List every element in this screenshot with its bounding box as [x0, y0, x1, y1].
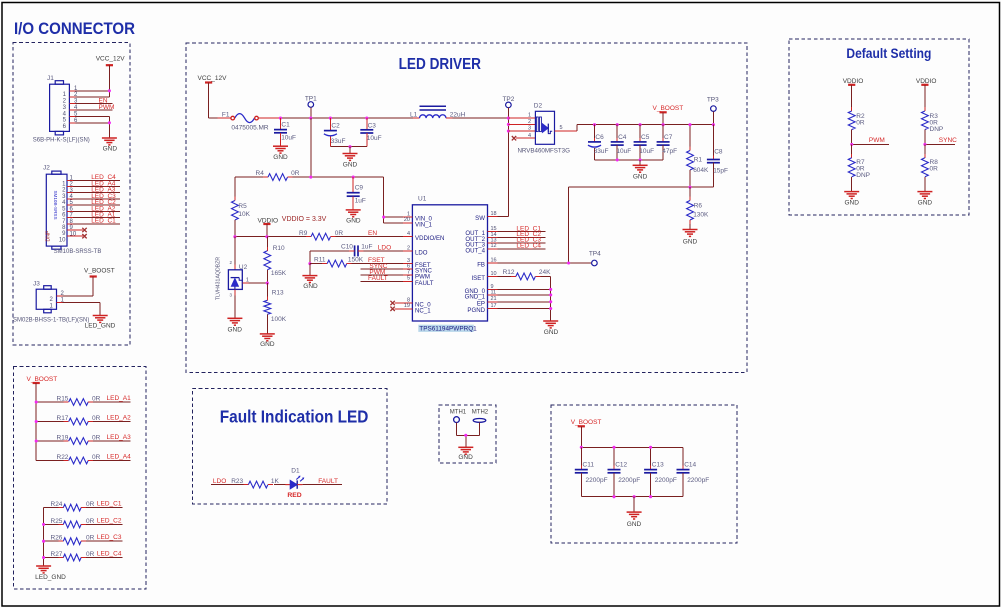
- svg-text:PWM: PWM: [99, 104, 115, 111]
- junction C10 R11: [308, 262, 311, 265]
- svg-text:C2: C2: [331, 122, 340, 129]
- capacitor C13 2200pF: [644, 447, 677, 496]
- svg-text:D1: D1: [291, 467, 300, 474]
- svg-text:4: 4: [407, 231, 410, 237]
- capacitor C14 2200pF: [677, 447, 710, 496]
- connector J2: [43, 165, 101, 255]
- svg-text:GND: GND: [544, 329, 559, 336]
- svg-text:GND: GND: [227, 327, 242, 334]
- svg-text:C6: C6: [595, 134, 604, 141]
- junction C1 rail: [279, 117, 282, 120]
- svg-text:LDO: LDO: [378, 245, 391, 252]
- wire LED_GND bus: [43, 508, 45, 566]
- resistor R17 0R net LED_A2: [36, 415, 131, 425]
- svg-text:0R: 0R: [335, 230, 344, 237]
- wire D2 pin1: [508, 113, 535, 119]
- junction EP: [549, 300, 552, 303]
- svg-text:100K: 100K: [271, 316, 287, 323]
- wire GND_0 to bus: [498, 288, 551, 290]
- svg-text:R22: R22: [57, 454, 69, 461]
- wire feedback node: [569, 187, 714, 263]
- wire J2 pin6 net LED_A2: [73, 205, 120, 212]
- wire U2 anode to ground: [234, 289, 236, 318]
- resistor R22 0R net LED_A4: [36, 454, 131, 464]
- ground at capacitor bank: [627, 497, 642, 528]
- op-amp U1 TPS61194PWPRQ1 body: [412, 196, 487, 333]
- test point TP2: [502, 96, 514, 118]
- junction GND_0: [549, 288, 552, 291]
- ground at C9: [346, 210, 361, 225]
- output capacitor section dashed box: [551, 405, 737, 543]
- no-connect D2 pin4: [512, 133, 536, 141]
- junction feedback R1: [688, 186, 691, 189]
- junction PWM divider: [850, 143, 853, 146]
- svg-text:TLVH431AQDBZR: TLVH431AQDBZR: [216, 257, 222, 300]
- svg-text:19: 19: [404, 303, 410, 309]
- wire D2 pin2: [508, 119, 535, 125]
- capacitor C7 47pF: [657, 125, 678, 160]
- svg-text:U2: U2: [239, 264, 248, 271]
- svg-text:2200pF: 2200pF: [618, 477, 640, 484]
- svg-text:VIN_1: VIN_1: [415, 221, 433, 228]
- U1 pin 5 FAULT: [403, 276, 434, 287]
- svg-text:130K: 130K: [693, 212, 709, 219]
- resistor R15 0R net LED_A1: [36, 395, 131, 405]
- resistor R24 0R net LED_C1: [44, 501, 123, 511]
- svg-text:12: 12: [491, 243, 497, 249]
- junction V_BOOST R17: [35, 420, 38, 423]
- U1 pin 14 OUT_2: [465, 232, 497, 243]
- no-connect J2 pin10: [67, 234, 87, 238]
- svg-text:SYNC: SYNC: [939, 137, 957, 144]
- LED D1 RED: [285, 467, 304, 499]
- power symbol VCC_12V main: [198, 75, 228, 118]
- svg-text:GND: GND: [303, 283, 318, 290]
- svg-text:TP4: TP4: [589, 250, 601, 257]
- svg-text:0475005.MR: 0475005.MR: [231, 125, 269, 132]
- wire net LDO to R23: [211, 478, 244, 485]
- svg-text:11: 11: [491, 289, 497, 295]
- svg-text:0R: 0R: [930, 166, 939, 173]
- junction top rail C11: [580, 446, 583, 449]
- svg-text:DNP: DNP: [45, 230, 51, 241]
- resistor R8 0R: [922, 144, 939, 191]
- resistor R2 0R: [848, 107, 865, 144]
- wire J2 pin1 net LED_C4: [73, 174, 120, 181]
- svg-text:GND: GND: [273, 154, 288, 161]
- svg-text:C5: C5: [641, 134, 650, 141]
- junction bottom rail C13: [649, 495, 652, 498]
- junction EN R5: [233, 235, 236, 238]
- svg-text:V_BOOST: V_BOOST: [653, 105, 684, 112]
- wire D2 pin5 to V_BOOST rail: [555, 125, 714, 132]
- junction SW node pin2: [507, 123, 510, 126]
- capacitor C1 10uF: [274, 118, 296, 146]
- ground at J1: [102, 138, 117, 153]
- wire D1 net FAULT: [302, 478, 341, 485]
- capacitor C10 1uF net LDO: [310, 244, 403, 257]
- svg-text:33uF: 33uF: [594, 148, 609, 155]
- resistor R23 1K: [231, 478, 279, 488]
- connector J3: [13, 281, 89, 324]
- capacitor C11 2200pF: [575, 447, 608, 496]
- wire D2 pin3: [508, 126, 535, 132]
- capacitor C9 1uF: [347, 177, 366, 210]
- resistor R11 150K net FSET: [310, 257, 403, 267]
- svg-text:GND: GND: [627, 521, 642, 528]
- ground at R11 C10: [302, 276, 318, 291]
- svg-text:LED_GND: LED_GND: [35, 574, 66, 581]
- junction C7 V_BOOST rail: [662, 123, 665, 126]
- wire OUT_2 net LED_C2: [498, 231, 546, 238]
- svg-text:LED_C1: LED_C1: [97, 501, 122, 508]
- svg-text:C3: C3: [368, 122, 377, 129]
- mounting holes dashed box: [439, 405, 496, 463]
- junction J1 GND: [108, 121, 111, 124]
- power symbol V_BOOST main: [653, 105, 684, 125]
- svg-text:1: 1: [246, 277, 249, 283]
- junction C6 V_BOOST rail: [593, 123, 596, 126]
- junction LED_GND R27: [42, 556, 45, 559]
- svg-text:17: 17: [491, 303, 497, 309]
- svg-text:C1: C1: [281, 122, 290, 129]
- wire switch node SW: [498, 118, 509, 217]
- resistor R6 130K: [687, 187, 709, 229]
- svg-text:R6: R6: [694, 203, 703, 210]
- junction SW node rail: [507, 117, 510, 120]
- capacitor C12 2200pF: [608, 447, 641, 496]
- svg-text:GND: GND: [844, 200, 859, 207]
- junction V_BOOST R15: [35, 400, 38, 403]
- test point TP3: [707, 96, 719, 124]
- ground at mounting holes: [458, 447, 473, 461]
- U1 pin 1 VIN_0: [403, 211, 433, 222]
- junction C4 V_BOOST rail: [616, 123, 619, 126]
- power symbol V_BOOST capacitor bank: [571, 419, 602, 447]
- svg-text:R17: R17: [57, 415, 69, 422]
- junction FB node: [567, 261, 570, 264]
- wire J2 pin8 net LED_C1: [73, 218, 120, 225]
- svg-text:LED_C1: LED_C1: [91, 218, 116, 225]
- svg-text:GND: GND: [683, 239, 698, 246]
- wire GND_1 to bus: [498, 294, 551, 296]
- power symbol VDDIO PWM divider: [843, 78, 864, 111]
- svg-text:10: 10: [491, 271, 497, 277]
- svg-text:3: 3: [528, 126, 531, 132]
- svg-text:V_BOOST: V_BOOST: [571, 419, 602, 426]
- junction EN VDDIO: [265, 235, 268, 238]
- junction C2 rail: [329, 117, 332, 120]
- wire net SYNC: [925, 137, 957, 144]
- svg-text:OUT_4: OUT_4: [465, 247, 485, 254]
- svg-text:GND: GND: [458, 454, 473, 461]
- svg-text:PWM: PWM: [869, 137, 885, 144]
- wire J1 pin3 net EN: [76, 97, 113, 104]
- svg-text:0R: 0R: [92, 415, 101, 422]
- svg-text:22uH: 22uH: [450, 111, 466, 118]
- ground at R7: [844, 192, 859, 207]
- power symbol V_BOOST anode resistors: [27, 376, 58, 461]
- svg-text:NC_1: NC_1: [415, 307, 431, 314]
- svg-text:C13: C13: [652, 461, 664, 468]
- svg-text:J3: J3: [33, 281, 40, 288]
- wire R11 ground stem: [309, 264, 311, 276]
- junction SW node pin3: [507, 129, 510, 132]
- svg-text:C12: C12: [615, 461, 627, 468]
- LED resistor section dashed box: [14, 367, 147, 590]
- svg-text:LDO: LDO: [415, 249, 428, 256]
- svg-text:24K: 24K: [539, 269, 551, 276]
- wire mounting holes to ground: [457, 435, 480, 447]
- wire J3 pin1 to LED_GND: [63, 303, 101, 316]
- wire J2 pin2 net LED_A4: [73, 180, 120, 187]
- test point TP4: [589, 250, 601, 265]
- svg-text:LED_C4: LED_C4: [516, 242, 541, 249]
- wire OUT_1 net LED_C1: [498, 225, 546, 232]
- U1 pin 20 VIN_1: [403, 217, 433, 228]
- ground at R8: [917, 192, 932, 207]
- svg-text:C4: C4: [618, 134, 627, 141]
- junction GND_1: [549, 293, 552, 296]
- wire R23 to D1: [274, 484, 286, 486]
- junction PGND: [549, 307, 552, 310]
- junction R10 R13 U2: [266, 282, 269, 285]
- junction LED_GND R26: [42, 540, 45, 543]
- wire net PWM to U1: [361, 269, 403, 276]
- svg-text:I/O CONNECTOR: I/O CONNECTOR: [14, 19, 135, 38]
- wire output cap ground bus: [595, 159, 664, 161]
- svg-text:PGND: PGND: [467, 307, 485, 314]
- svg-text:LED_GND: LED_GND: [85, 323, 116, 330]
- section title Default Setting: [846, 46, 931, 61]
- wire FB to TP4: [498, 262, 592, 264]
- wire U2 ref pin 1: [242, 277, 267, 283]
- svg-text:R15: R15: [57, 396, 69, 403]
- svg-text:0R: 0R: [856, 119, 865, 126]
- fault indication section dashed box: [193, 389, 388, 505]
- ground at R6: [683, 230, 698, 246]
- resistor R25 0R net LED_C2: [44, 517, 123, 527]
- resistor R27 0R net LED_C4: [44, 551, 123, 561]
- wire VCC_12V to fuse F1: [209, 117, 231, 119]
- svg-text:GND: GND: [103, 146, 118, 153]
- svg-text:16: 16: [491, 257, 497, 263]
- mounting hole MTH1: [450, 409, 467, 435]
- junction TP1 rail: [309, 117, 312, 120]
- wire C10 to ground: [309, 251, 311, 264]
- resistor R4 0R: [235, 170, 384, 180]
- junction mounting hole ground: [464, 434, 467, 437]
- svg-text:15pF: 15pF: [713, 168, 728, 175]
- default setting section dashed box: [789, 39, 969, 215]
- junction TP3 rail: [712, 123, 715, 126]
- svg-text:5: 5: [407, 276, 410, 282]
- U1 pin 6 SYNC: [403, 263, 433, 274]
- junction bottom rail C12: [612, 495, 615, 498]
- svg-text:C14: C14: [684, 461, 696, 468]
- svg-text:FAULT: FAULT: [318, 478, 338, 485]
- U1 pin 16 FB: [477, 257, 497, 268]
- svg-text:TPS61194PWPRQ1: TPS61194PWPRQ1: [419, 326, 477, 333]
- svg-text:SM10B-SRSS: SM10B-SRSS: [53, 190, 58, 219]
- svg-text:LED_A4: LED_A4: [107, 454, 132, 461]
- U1 pin 7 PWM: [403, 269, 430, 280]
- svg-text:R11: R11: [314, 257, 326, 264]
- wire TP1 column: [310, 118, 312, 177]
- ground LED_GND at cathode resistors: [35, 566, 66, 581]
- capacitor C5 10uF: [634, 125, 655, 160]
- ground at R13: [260, 334, 275, 348]
- U1 pin 10 ISET: [471, 271, 497, 282]
- power symbol V_BOOST at J3: [84, 267, 115, 296]
- U1 pin 9 GND_0: [465, 284, 498, 295]
- svg-text:150K: 150K: [348, 257, 364, 264]
- svg-text:LED_C3: LED_C3: [97, 534, 122, 541]
- U1 pin 17 PGND: [467, 303, 497, 314]
- svg-text:10uF: 10uF: [639, 148, 654, 155]
- resistor R5 10K: [232, 177, 251, 237]
- U1 pin 8 NC_0 no-connect: [390, 297, 431, 308]
- svg-text:J1: J1: [47, 75, 54, 82]
- ground at C2 C3: [343, 147, 358, 169]
- U1 pin 15 OUT_1: [465, 226, 497, 237]
- wire OUT_4 net LED_C4: [498, 242, 546, 249]
- U1 pin 11 GND_1: [465, 289, 498, 300]
- svg-text:0R: 0R: [92, 454, 101, 461]
- svg-text:47pF: 47pF: [662, 148, 677, 155]
- svg-text:MTH1: MTH1: [450, 409, 467, 415]
- wire net FAULT to U1: [361, 275, 403, 282]
- svg-text:C8: C8: [714, 149, 723, 156]
- resistor R3 0R: [922, 107, 944, 144]
- resistor R9 0R net EN: [299, 230, 377, 240]
- wire J2 pin3 net LED_A3: [73, 187, 120, 194]
- junction R4 TP1: [309, 176, 312, 179]
- junction VIN_0: [382, 215, 385, 218]
- svg-text:D2: D2: [534, 102, 543, 109]
- ground LED_GND at J3: [85, 316, 116, 330]
- svg-text:GND: GND: [346, 217, 361, 224]
- wire ISET ground bus: [550, 276, 552, 321]
- junction top rail C12: [612, 446, 615, 449]
- svg-text:LED_A1: LED_A1: [107, 395, 132, 402]
- svg-text:21: 21: [491, 296, 497, 302]
- wire J3 pin2 to V_BOOST: [63, 295, 94, 297]
- capacitor C3 10uF: [360, 118, 381, 147]
- U1 pin 4 VDDIO/EN: [403, 231, 445, 242]
- svg-text:0R: 0R: [86, 518, 95, 525]
- svg-text:VCC_12V: VCC_12V: [198, 75, 228, 82]
- connector J1: [33, 75, 90, 144]
- capacitor C8 15pF: [707, 125, 728, 188]
- svg-text:0R: 0R: [291, 170, 300, 177]
- svg-text:Fault Indication LED: Fault Indication LED: [220, 407, 369, 427]
- wire net PWM: [852, 137, 890, 144]
- section title LED DRIVER: [399, 56, 482, 73]
- svg-text:C10: C10: [341, 244, 353, 251]
- wire capacitor bank top rail: [581, 446, 683, 448]
- junction LED_GND R25: [42, 523, 45, 526]
- junction top rail C13: [649, 446, 652, 449]
- wire OUT_3 net LED_C3: [498, 237, 546, 244]
- svg-text:TP3: TP3: [707, 96, 719, 103]
- U1 pin 18 SW: [475, 211, 497, 222]
- svg-text:10uF: 10uF: [367, 135, 382, 142]
- svg-text:EN: EN: [368, 230, 377, 237]
- svg-text:33uF: 33uF: [331, 138, 346, 145]
- I/O connector section dashed box: [13, 43, 130, 346]
- resistor R10 165K: [264, 237, 287, 283]
- svg-text:R25: R25: [51, 518, 63, 525]
- U1 pin 12 OUT_4: [465, 243, 497, 254]
- wire net SYNC to U1: [361, 263, 403, 270]
- svg-text:1K: 1K: [271, 478, 280, 485]
- ground at U1: [543, 321, 558, 336]
- svg-text:GND: GND: [260, 341, 275, 348]
- svg-text:R1: R1: [694, 157, 703, 164]
- svg-text:R27: R27: [51, 551, 63, 558]
- svg-text:2: 2: [528, 119, 531, 125]
- junction cap bus C4: [616, 158, 619, 161]
- svg-text:R26: R26: [51, 535, 63, 542]
- svg-text:R9: R9: [299, 230, 308, 237]
- resistor R7 0R: [848, 144, 870, 191]
- wire EN rail: [235, 236, 403, 238]
- svg-text:C11: C11: [583, 461, 595, 468]
- wire F1 to input rail: [259, 117, 420, 119]
- svg-text:0R: 0R: [92, 435, 101, 442]
- wire J2 pin4 net LED_C3: [73, 193, 120, 200]
- svg-text:2200pF: 2200pF: [655, 477, 677, 484]
- junction C3 rail: [365, 117, 368, 120]
- ground at C1: [273, 146, 288, 161]
- svg-text:0R: 0R: [86, 535, 95, 542]
- fuse F1 0475005.MR: [222, 111, 269, 131]
- svg-text:MTH2: MTH2: [472, 409, 489, 415]
- wire J2 pin7 net LED_A1: [73, 211, 120, 218]
- svg-text:10uF: 10uF: [616, 148, 631, 155]
- svg-text:S6B-PH-K-S(LF)(SN): S6B-PH-K-S(LF)(SN): [33, 138, 90, 144]
- shunt reference U2 TLVH431AQDBZR: [216, 257, 248, 300]
- svg-text:SM02B-BHSS-1-TB(LF)(SN): SM02B-BHSS-1-TB(LF)(SN): [13, 317, 89, 323]
- junction R4 C9: [352, 176, 355, 179]
- text VDDIO = 3.3V: [282, 216, 327, 223]
- svg-text:R23: R23: [231, 478, 243, 485]
- svg-text:0R: 0R: [86, 551, 95, 558]
- junction SYNC divider: [923, 143, 926, 146]
- svg-text:V_BOOST: V_BOOST: [84, 267, 115, 274]
- svg-text:10K: 10K: [238, 211, 250, 218]
- mounting hole MTH2: [472, 409, 489, 435]
- wire capacitor bank bottom rail: [581, 496, 683, 498]
- svg-text:Default Setting: Default Setting: [846, 46, 931, 61]
- svg-text:DNP: DNP: [856, 172, 870, 179]
- svg-text:5: 5: [560, 125, 563, 131]
- capacitor C2 33uF polarized: [324, 118, 346, 147]
- svg-text:R12: R12: [503, 269, 515, 276]
- svg-text:R5: R5: [238, 203, 247, 210]
- svg-text:VDDIO/EN: VDDIO/EN: [415, 235, 444, 242]
- svg-text:C9: C9: [355, 185, 364, 192]
- schottky diode D2 NRVB460MFST3G: [517, 102, 570, 154]
- ground at output caps: [633, 160, 648, 181]
- svg-text:1: 1: [528, 113, 531, 119]
- svg-text:0R: 0R: [92, 396, 101, 403]
- junction C5 V_BOOST rail: [639, 123, 642, 126]
- svg-text:7: 7: [407, 269, 410, 275]
- svg-text:LED_C2: LED_C2: [97, 517, 122, 524]
- svg-text:SW: SW: [475, 215, 485, 222]
